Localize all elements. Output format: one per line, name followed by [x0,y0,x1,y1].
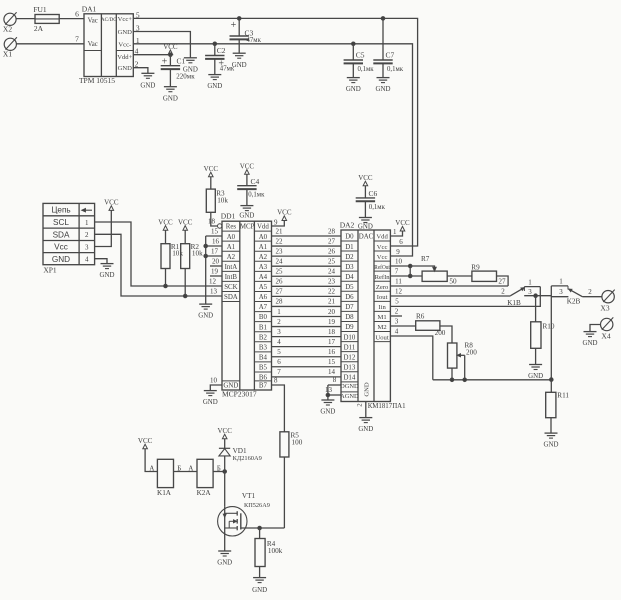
node RefOut junction [408,264,412,268]
svg-text:Zero: Zero [376,284,389,291]
node C1/VCC junction [169,53,173,57]
svg-text:D4: D4 [345,274,354,281]
svg-text:R7: R7 [421,255,430,263]
capacitor C7 0.1uk [373,18,403,77]
svg-text:1: 1 [393,228,397,236]
wire DA1 pin 1 (Vcc-) to DA2 pin 9 [133,36,412,256]
node R8 bottom junction [450,378,454,382]
svg-text:B1: B1 [259,324,268,331]
svg-text:8: 8 [333,376,337,384]
svg-text:C5: C5 [356,51,365,60]
svg-text:3: 3 [528,288,532,296]
resistor R11 [546,391,570,417]
svg-text:X1: X1 [3,50,12,59]
svg-text:9: 9 [274,218,278,226]
pin 18 label [208,217,216,225]
svg-text:22: 22 [328,288,336,296]
svg-text:Б: Б [217,465,221,472]
svg-text:TPM 10515: TPM 10515 [79,76,115,85]
wire bottom rail [433,379,552,381]
node R11 junction [550,378,554,382]
wire XP1 Vcc to VCC [95,210,112,246]
ground at A0-A2 [198,304,213,320]
svg-text:10k: 10k [217,196,228,204]
svg-text:Uout: Uout [376,334,389,341]
pin 9 label DA2 [396,248,400,256]
node C7 junction [381,17,385,21]
svg-text:GND: GND [163,95,178,102]
svg-text:+: + [162,56,168,67]
svg-text:MCP: MCP [240,224,255,231]
node R8 wiper junction [463,378,467,382]
ground at DA2 AGND [320,400,335,416]
inversion bubble on Res pin [218,224,222,228]
wire R8 to bottom rail [451,368,453,380]
wire VT1 source to ground [217,551,232,567]
switch K1B [507,278,551,307]
svg-text:4: 4 [277,338,281,346]
svg-text:Vdd: Vdd [376,234,388,241]
ground below DA2 [358,418,373,434]
svg-text:A1: A1 [259,244,268,251]
svg-text:Vcc+: Vcc+ [118,16,133,23]
svg-text:GND: GND [583,340,598,347]
svg-text:A3: A3 [259,264,268,271]
svg-text:DD1: DD1 [221,212,236,221]
svg-text:VT1: VT1 [242,492,256,500]
svg-text:20: 20 [328,308,336,316]
svg-text:24: 24 [328,268,336,276]
node C2 junction [213,42,217,46]
connector X2 [3,12,17,33]
wire K2A to VT1 drain [213,465,225,472]
svg-text:GND: GND [364,382,371,397]
wire R11 to ground [550,418,552,433]
op-amp U1: IO expander chip DD1 MCP23017 [221,212,272,399]
svg-text:Vdd: Vdd [257,224,269,231]
wire R5 to gate [283,457,285,528]
ground at C4 [239,206,254,220]
switch K2B [551,277,582,379]
svg-text:21: 21 [276,227,284,235]
svg-text:Vcc: Vcc [377,244,388,251]
svg-text:GND: GND [217,560,232,567]
svg-text:19: 19 [211,268,219,276]
wire bus D5 (MCP pin 26 to DAC pin 23) [272,278,342,287]
svg-text:220мк: 220мк [176,73,195,81]
svg-text:SDA: SDA [53,231,70,240]
connector XP1 [43,203,95,274]
svg-text:D7: D7 [345,304,354,311]
resistor R2 10k [181,230,203,296]
wire DA1 pin 4 to VCC node [133,47,170,56]
wire bus D0 (MCP pin 21 to DAC pin 28) [272,227,342,236]
svg-text:27: 27 [498,277,506,285]
wire R4 to ground [259,567,261,578]
ground at C2 [207,75,222,91]
svg-text:11: 11 [395,277,402,285]
node K1B/R10 junction [534,294,538,298]
relay coil K1A [157,459,173,497]
svg-text:19: 19 [328,318,336,326]
svg-text:GND: GND [207,83,222,90]
svg-text:GND: GND [320,409,335,416]
wire R7 to R9 [447,275,472,277]
svg-text:SDA: SDA [224,294,238,301]
relay coil K2A [197,459,213,497]
wire AGND to ground [325,385,341,400]
svg-text:A7: A7 [259,304,268,311]
svg-text:6: 6 [277,358,281,366]
wire VT1 gate [241,527,285,529]
svg-text:0,1мк: 0,1мк [387,66,404,73]
wire VD1 to VT1 [224,472,226,507]
svg-text:50: 50 [449,277,457,285]
VCC symbol at MCP Vdd [277,209,292,221]
wire bus D12 (MCP pin 5 to DAC pin 16) [272,348,342,357]
wire bus D4 (MCP pin 25 to DAC pin 24) [272,268,342,277]
svg-text:10k: 10k [192,250,203,258]
svg-text:GND: GND [358,224,373,231]
svg-text:9: 9 [396,248,400,256]
svg-text:IntB: IntB [225,274,238,281]
svg-text:10: 10 [395,257,403,265]
connector X1 [3,37,17,58]
wire DGND to ground [328,376,341,385]
pin 20 label [212,258,220,266]
svg-text:IntA: IntA [225,264,238,271]
svg-text:B3: B3 [259,344,268,351]
svg-text:Б: Б [177,465,181,472]
node A1 junction [204,244,208,248]
wire bus D6 (MCP pin 27 to DAC pin 22) [272,288,342,297]
resistor R4 100k [255,528,283,567]
svg-text:КМ1817ПА1: КМ1817ПА1 [368,403,406,410]
wire DA2 Iout to K1B [390,287,510,296]
svg-text:X3: X3 [600,304,609,313]
svg-text:XP1: XP1 [43,265,57,274]
svg-text:RefOut: RefOut [374,264,390,271]
svg-text:GND: GND [528,373,543,380]
AC/DC converter DA1 [79,5,133,85]
svg-text:1: 1 [559,277,563,285]
svg-text:23: 23 [328,278,336,286]
VCC symbol at VD1 [217,427,232,439]
wire FU1 to DA1 pin 6 [59,10,84,19]
svg-text:6: 6 [75,10,79,19]
svg-text:D12: D12 [343,354,355,361]
svg-text:12: 12 [209,278,217,286]
svg-text:A1: A1 [227,244,236,251]
svg-text:Vcc: Vcc [54,243,68,252]
ground at XP1 [100,264,115,280]
wire DA2 Uout [390,327,432,380]
svg-text:C7: C7 [386,51,395,60]
connector X4 [601,317,614,340]
wire DA2 RefOut [390,257,410,266]
svg-text:GND: GND [203,399,218,406]
svg-text:A2: A2 [227,254,236,261]
wire RefOut to RefIn [409,266,411,276]
svg-text:D5: D5 [345,284,354,291]
wire DA2 GND stub [357,402,366,418]
wire VCC to MCP pin 9 [272,218,285,226]
pin 15 label [211,227,219,235]
svg-text:Vcc: Vcc [377,254,388,261]
svg-text:M1: M1 [378,314,387,321]
ground at MCP pin 10 [203,391,218,407]
svg-text:27: 27 [276,288,284,296]
svg-text:M2: M2 [378,324,387,331]
resistor R6 200 [416,312,446,337]
wire R3 to MCP Res [211,212,218,226]
svg-text:2: 2 [85,231,89,239]
wire XP1 GND pin [95,259,107,264]
svg-text:GND: GND [376,86,391,93]
capacitor C2 47uk [205,44,235,75]
svg-text:C4: C4 [251,177,260,186]
potentiometer R8 200 [448,341,478,368]
svg-text:GND: GND [252,587,267,594]
svg-text:Vac: Vac [88,41,98,48]
wire bus D3 (MCP pin 24 to DAC pin 25) [272,257,342,266]
svg-text:2: 2 [501,287,505,295]
svg-text:5: 5 [395,298,399,306]
VCC symbol at C6 [358,174,373,186]
svg-text:27: 27 [328,237,336,245]
svg-text:13: 13 [325,386,333,394]
wire to R11 [550,379,552,392]
svg-text:GND: GND [358,426,373,433]
transistor VT1 KP526A9 [218,492,270,551]
svg-text:FU1: FU1 [33,5,47,14]
svg-text:0,1мк: 0,1мк [358,66,375,73]
node gate/R4 junction [258,526,262,530]
wire MCP A2 tie [206,255,222,257]
svg-text:20: 20 [212,258,220,266]
resistor R3 10k [206,177,228,213]
svg-text:Vac: Vac [88,17,98,24]
svg-text:15: 15 [211,227,219,235]
svg-text:5: 5 [277,348,281,356]
wire X1 to DA1 pin 7 [16,34,84,44]
svg-text:K2A: K2A [197,489,212,497]
svg-text:K1A: K1A [157,489,172,497]
svg-text:K1B: K1B [507,299,521,307]
svg-text:200: 200 [435,329,446,337]
svg-text:Цепь: Цепь [51,206,70,215]
ground at R4 [252,578,267,594]
ground at X4 [583,332,598,348]
node R1/SCK junction [164,284,168,288]
wire R9 to Zero line [497,276,509,286]
capacitor C5 0.1uk [344,44,375,78]
svg-text:0,1мк: 0,1мк [369,204,386,211]
svg-text:C2: C2 [217,46,226,55]
wire R10 feed [535,296,537,322]
svg-text:R6: R6 [416,312,425,320]
VCC symbol at K1A [138,437,153,449]
ground at C5 [346,78,361,94]
VCC symbol at R1 [158,218,173,230]
svg-text:6: 6 [399,238,403,246]
wire bus D10 (MCP pin 3 to DAC pin 18) [272,328,342,337]
resistor R10 [531,322,555,349]
svg-text:D0: D0 [345,234,354,241]
svg-text:200: 200 [466,348,477,356]
wiper of R8 [457,354,465,380]
svg-text:10k: 10k [172,250,183,258]
wire bus D14 (MCP pin 7 to DAC pin 14) [272,368,342,377]
svg-text:17: 17 [328,338,336,346]
wire K2B to X3 [582,288,602,297]
svg-text:R10: R10 [543,322,555,330]
svg-text:X4: X4 [601,332,610,341]
resistor R1 10k [161,230,183,286]
VCC symbol at C4 [240,162,255,174]
node DGND/AGND junction [326,393,330,397]
wire bus D8 (MCP pin 1 to DAC pin 20) [272,308,342,317]
wire MCP A0 tie [206,235,222,237]
node C5 junction [352,42,356,46]
svg-text:21: 21 [328,298,336,306]
svg-text:18: 18 [328,328,336,336]
pin 12 label [209,278,217,286]
wire R6 to R8 [440,326,452,343]
svg-text:18: 18 [208,217,216,225]
wire X4 to ground [590,325,601,332]
wire DA1 pin 3 to ground [133,24,190,58]
wire XP1 SDA to MCP SDA [95,234,222,296]
VCC symbol at R3 [204,165,219,177]
svg-text:DA2: DA2 [340,221,355,230]
wire A0-A2 to ground [205,236,207,304]
svg-text:B6: B6 [259,375,268,382]
resistor R5 100 [280,432,303,458]
svg-text:D6: D6 [345,294,354,301]
pin 6 label DA2 [399,238,403,246]
wire XP1 SCL to MCP SCK [95,222,222,286]
node C3 junction [237,17,241,21]
svg-text:MCP23017: MCP23017 [222,389,257,398]
svg-text:16: 16 [212,237,220,245]
svg-text:12: 12 [395,287,403,295]
svg-text:100k: 100k [268,547,283,555]
wire DA2 Zero [390,277,508,286]
wire DA2 M2 to R6 [390,317,415,326]
svg-text:1: 1 [85,219,89,227]
svg-text:26: 26 [328,247,336,255]
svg-text:7: 7 [395,267,399,275]
VCC symbol at C1 [163,43,178,55]
node R2/SDA junction [183,294,187,298]
svg-text:D1: D1 [345,244,354,251]
wire bus D13 (MCP pin 6 to DAC pin 15) [272,358,342,367]
VCC symbol at DA2 Vdd [395,219,410,231]
wire bus D9 (MCP pin 2 to DAC pin 19) [272,318,342,327]
svg-text:D14: D14 [343,375,355,382]
wire X2 to FU1 [16,18,35,20]
svg-text:22: 22 [276,237,284,245]
wire MCP B7 to R5 [272,376,285,432]
svg-text:B4: B4 [259,354,268,361]
ground at DA1 pin 3 [183,58,198,74]
VCC symbol at XP1 [104,199,119,211]
svg-text:GND: GND [346,86,361,93]
capacitor C1 220uk [161,55,196,87]
svg-text:GND: GND [52,255,70,264]
wire MCP GND pin 10 [210,385,222,390]
ground at C6 [358,218,373,231]
svg-text:47мк: 47мк [220,66,235,73]
svg-text:R11: R11 [557,391,569,399]
svg-text:SCL: SCL [53,218,69,227]
svg-text:3: 3 [395,317,399,325]
svg-text:A4: A4 [259,274,268,281]
svg-text:GND: GND [239,213,254,220]
svg-text:2: 2 [357,403,364,407]
pin 16 label [212,237,220,245]
potentiometer R7 50 [421,255,457,286]
svg-text:B7: B7 [259,383,268,390]
svg-text:VD1: VD1 [233,447,247,455]
svg-text:K2B: K2B [567,298,581,306]
stub IntB [210,275,222,277]
svg-text:B5: B5 [259,365,268,372]
svg-text:DGND: DGND [340,383,359,390]
ground at R11 [544,433,559,449]
svg-text:GND: GND [198,313,213,320]
node coil/drain junction [223,470,227,474]
svg-text:28: 28 [328,227,336,235]
ground at DA1 pin 2 [140,73,155,89]
wire DA2 Iin to K1B pin 1 [390,287,540,307]
svg-text:C6: C6 [369,189,378,198]
svg-text:47мк: 47мк [247,37,262,44]
svg-text:GND: GND [140,83,155,90]
svg-text:AC/DC: AC/DC [101,17,117,23]
svg-text:AGND: AGND [340,393,359,400]
wire bus D1 (MCP pin 22 to DAC pin 27) [272,237,342,246]
svg-text:C1: C1 [177,57,186,66]
svg-text:GND: GND [118,65,133,72]
svg-text:D2: D2 [345,254,354,261]
svg-text:28: 28 [276,298,284,306]
svg-text:25: 25 [328,257,336,265]
svg-text:RefIn: RefIn [375,274,391,281]
svg-text:X2: X2 [3,25,12,34]
wire R10 to ground [535,348,537,364]
svg-text:2: 2 [588,288,592,296]
svg-text:3: 3 [559,288,563,296]
svg-text:2A: 2A [34,24,44,33]
svg-text:D13: D13 [343,364,355,371]
svg-text:Vcc-: Vcc- [118,41,131,48]
svg-text:D11: D11 [344,344,356,351]
wire VCC to DA2 pin 1 [390,228,402,236]
wire MCP A1 tie [206,245,222,247]
svg-text:GND: GND [544,442,559,449]
connector X3 [600,290,614,313]
svg-text:25: 25 [276,268,284,276]
svg-text:A0: A0 [227,234,236,241]
svg-text:7: 7 [277,368,281,376]
wire bus D7 (MCP pin 28 to DAC pin 21) [272,298,342,307]
svg-text:23: 23 [276,247,284,255]
capacitor C3 47uk [230,18,262,52]
DAC chip DA2 KM1817PA1 [340,221,406,410]
stub DA2 M1 [390,307,402,316]
